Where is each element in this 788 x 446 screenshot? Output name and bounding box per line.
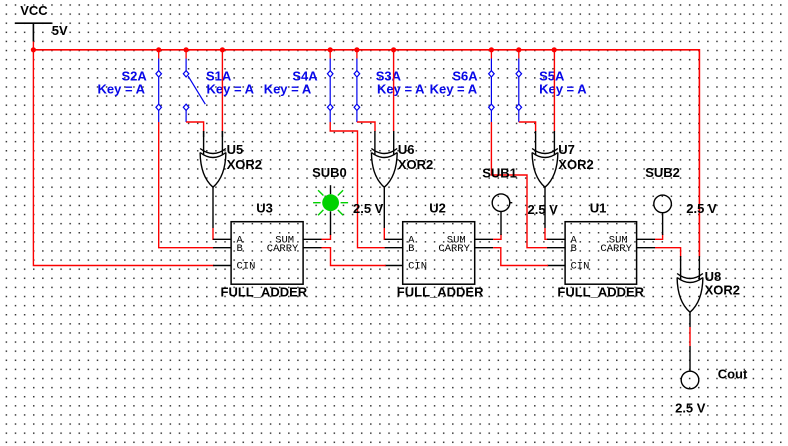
svg-text:VCC: VCC bbox=[20, 3, 48, 18]
wire U5 to U3.A bbox=[213, 228, 214, 239]
svg-text:B: B bbox=[408, 243, 414, 255]
svg-text:FULL_ADDER: FULL_ADDER bbox=[557, 285, 644, 300]
wire to probe Cout bbox=[689, 346, 691, 371]
pin stubs U1 bbox=[547, 239, 655, 265]
svg-text:5V: 5V bbox=[52, 23, 68, 38]
svg-text:U7: U7 bbox=[558, 142, 575, 157]
svg-text:2.5 V: 2.5 V bbox=[353, 201, 384, 216]
svg-text:CIN: CIN bbox=[237, 261, 256, 273]
junction at U7 input B tap bbox=[552, 47, 557, 52]
junction at S5A bbox=[516, 47, 521, 52]
svg-text:Key = A: Key = A bbox=[207, 81, 255, 96]
junction at S2A bbox=[156, 47, 161, 52]
svg-text:B: B bbox=[571, 243, 577, 255]
probe Cout bbox=[681, 371, 699, 389]
svg-text:2.5 V: 2.5 V bbox=[528, 202, 559, 217]
probe SUB2 bbox=[654, 195, 672, 235]
wire S6A to U1.B bbox=[491, 122, 548, 248]
switch S4A (closed) bbox=[327, 50, 333, 122]
probe SUB0 (lit, green) bbox=[313, 185, 348, 235]
junction at S4A bbox=[328, 47, 333, 52]
wire S2A to U3.B bbox=[159, 122, 214, 248]
junction at VCC drop bbox=[31, 47, 36, 52]
svg-text:Key = A: Key = A bbox=[98, 81, 146, 96]
pin U5 output bbox=[212, 187, 214, 228]
switch S5A (closed) bbox=[516, 50, 522, 122]
svg-text:Cout: Cout bbox=[718, 367, 748, 382]
svg-text:CIN: CIN bbox=[571, 261, 590, 273]
wire S3A to U6 input A bbox=[357, 122, 375, 132]
wire U3.SUM to probe SUB0 bbox=[322, 234, 331, 239]
switch S1A (open) bbox=[183, 50, 205, 122]
svg-text:SUB1: SUB1 bbox=[482, 166, 517, 181]
svg-text:U5: U5 bbox=[227, 142, 244, 157]
svg-text:CARRY: CARRY bbox=[600, 243, 632, 255]
xor gate U6 bbox=[371, 131, 397, 187]
svg-text:Key = A: Key = A bbox=[430, 81, 478, 96]
svg-text:XOR2: XOR2 bbox=[398, 157, 433, 172]
full adder U2 bbox=[385, 222, 493, 285]
svg-text:CIN: CIN bbox=[408, 261, 427, 273]
body U2 bbox=[403, 222, 475, 285]
xor gate U7 bbox=[532, 131, 558, 187]
junction at S3A bbox=[354, 47, 359, 52]
wire rail to U5 input B bbox=[221, 50, 223, 132]
wire U2.SUM to probe SUB1 bbox=[493, 234, 501, 239]
full adder U3 bbox=[213, 222, 321, 285]
power source VCC bbox=[15, 23, 52, 41]
svg-text:B: B bbox=[237, 243, 243, 255]
xor gate U5 bbox=[200, 131, 226, 187]
wire left CIN feed bbox=[33, 50, 214, 266]
svg-text:U1: U1 bbox=[590, 201, 607, 216]
pin U5 inputs bbox=[204, 131, 223, 137]
svg-text:XOR2: XOR2 bbox=[227, 157, 262, 172]
switch S6A (closed) bbox=[489, 50, 495, 122]
svg-text:Key = A: Key = A bbox=[264, 81, 312, 96]
svg-text:SUB0: SUB0 bbox=[312, 165, 347, 180]
junction at U5 input B tap bbox=[220, 47, 225, 52]
wire U2.CARRY to U1.CIN bbox=[493, 248, 548, 266]
svg-text:XOR2: XOR2 bbox=[558, 157, 593, 172]
full adder U1 bbox=[547, 222, 655, 285]
pin U6 output bbox=[383, 187, 385, 228]
svg-text:2.5 V: 2.5 V bbox=[686, 201, 717, 216]
body U1 bbox=[565, 222, 637, 285]
svg-text:CARRY: CARRY bbox=[438, 243, 470, 255]
svg-text:2.5 V: 2.5 V bbox=[675, 401, 706, 416]
svg-text:Key = A: Key = A bbox=[539, 81, 587, 96]
xor gate U8 bbox=[677, 256, 703, 312]
svg-text:U3: U3 bbox=[256, 201, 273, 216]
pin U7 output bbox=[544, 187, 546, 228]
svg-text:FULL_ADDER: FULL_ADDER bbox=[397, 285, 484, 300]
wire U6 to U2.A bbox=[384, 228, 385, 239]
wire U8 output bbox=[689, 327, 691, 346]
body U3 bbox=[231, 222, 303, 285]
wire S5A to U7 input A bbox=[519, 122, 536, 132]
svg-text:CARRY: CARRY bbox=[267, 243, 299, 255]
switch S2A (closed) bbox=[156, 50, 162, 122]
pin stubs U2 bbox=[385, 239, 493, 265]
wire VCC to rail bbox=[32, 42, 34, 50]
junction at S6A bbox=[489, 47, 494, 52]
junction at S1A bbox=[184, 47, 189, 52]
svg-text:U2: U2 bbox=[429, 201, 446, 216]
svg-text:FULL_ADDER: FULL_ADDER bbox=[221, 285, 308, 300]
svg-text:U6: U6 bbox=[398, 142, 415, 157]
wire S4A to U2.B bbox=[330, 122, 386, 248]
switch S3A (closed) bbox=[354, 50, 360, 122]
svg-text:Key = A: Key = A bbox=[377, 81, 425, 96]
probe SUB1 bbox=[492, 194, 512, 235]
wire rail to U7 input B bbox=[553, 50, 555, 132]
pin U8 output bbox=[689, 312, 691, 327]
wire rail to U6 input B bbox=[393, 50, 395, 132]
wire U1.SUM to probe SUB2 bbox=[655, 234, 663, 239]
svg-text:SUB2: SUB2 bbox=[645, 165, 680, 180]
svg-text:XOR2: XOR2 bbox=[705, 282, 740, 297]
wire power rail bbox=[33, 50, 699, 257]
pin stubs U3 bbox=[213, 239, 321, 265]
junction at U6 input B tap bbox=[391, 47, 396, 52]
wire U7 to U1.A bbox=[545, 228, 548, 239]
wire S1A to U5 input A bbox=[186, 122, 204, 132]
wire U1.CARRY to U8 input A bbox=[655, 248, 681, 257]
wire U3.CARRY to U2.CIN bbox=[322, 248, 386, 266]
